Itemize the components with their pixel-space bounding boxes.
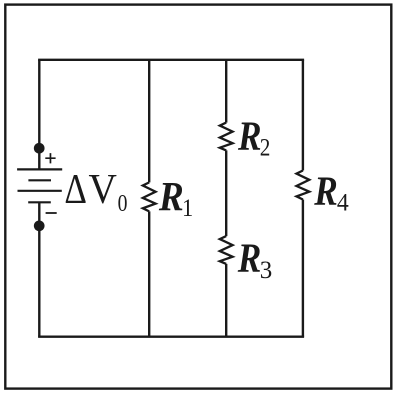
svg-text:0: 0 xyxy=(118,189,128,216)
wire branch R1 upper xyxy=(148,60,150,183)
battery V0 plate 3 long xyxy=(18,190,62,192)
svg-text:3: 3 xyxy=(260,257,273,284)
svg-text:R: R xyxy=(237,114,261,159)
resistor R3 zigzag xyxy=(220,236,233,264)
svg-text:4: 4 xyxy=(337,189,349,217)
wire bottom rail xyxy=(38,336,304,338)
minus polarity mark xyxy=(46,212,57,214)
resistor R1 zigzag xyxy=(143,182,156,211)
svg-text:1: 1 xyxy=(182,195,193,222)
resistor R4 zigzag xyxy=(297,171,310,200)
battery V0 plate 2 short xyxy=(28,179,51,181)
wire branch R2/R3 upper xyxy=(225,60,227,123)
wire left bottom (battery - lead) xyxy=(38,202,40,336)
battery V0 plate 1 long xyxy=(17,168,62,170)
svg-text:R: R xyxy=(158,173,184,219)
wire left top (battery + lead) xyxy=(38,60,40,170)
wire right branch upper (R4 lead) xyxy=(302,60,304,171)
svg-text:R: R xyxy=(313,169,337,214)
wire right branch lower xyxy=(302,200,304,337)
battery V0 plate 4 short xyxy=(28,201,51,203)
plus polarity mark xyxy=(45,153,55,163)
resistor R2 zigzag xyxy=(220,123,233,151)
svg-text:Δ: Δ xyxy=(64,167,87,213)
node dot bottom battery terminal xyxy=(34,220,45,231)
wire branch R2/R3 lower xyxy=(225,264,227,337)
svg-text:R: R xyxy=(237,236,261,281)
svg-text:V: V xyxy=(89,166,117,212)
wire top rail xyxy=(38,59,304,61)
wire between R2 and R3 xyxy=(225,150,227,236)
wire branch R1 lower xyxy=(148,211,150,336)
svg-text:2: 2 xyxy=(260,134,271,162)
node dot top battery terminal xyxy=(34,143,45,154)
